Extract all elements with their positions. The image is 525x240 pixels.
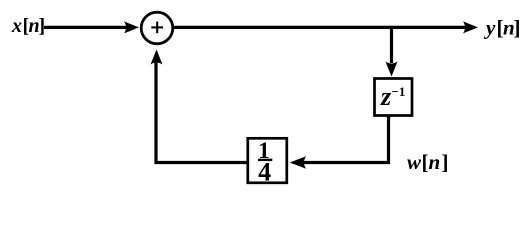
svg-text:n: n: [429, 150, 441, 174]
svg-text:−1: −1: [392, 84, 406, 99]
gain block 1/4 (fraction): [248, 138, 287, 187]
arrowhead into adder (right): [124, 21, 139, 33]
svg-text:z: z: [380, 82, 392, 111]
svg-text:w: w: [407, 150, 422, 174]
svg-text:]: ]: [442, 150, 449, 174]
wire: input line from x[n] to adder: [44, 26, 126, 29]
arrowhead into 1/4 box (left): [290, 156, 306, 168]
label x[n]: [11, 15, 45, 37]
arrowhead to y[n] (right): [463, 21, 478, 33]
label y[n]: [483, 16, 521, 40]
arrowhead into adder bottom (up): [151, 50, 163, 65]
svg-text:[: [: [422, 150, 429, 174]
svg-text:]: ]: [514, 16, 521, 40]
wire: from delay box down then left to 1/4 box: [303, 116, 389, 163]
summing junction (adder circle with +): [141, 12, 173, 44]
wire: branch down from top line to delay box: [390, 26, 393, 63]
wire: from 1/4 box left, then up to adder: [156, 58, 247, 163]
arrowhead into delay box (down): [386, 62, 398, 77]
svg-text:x: x: [11, 15, 22, 37]
wire: top line from adder to y[n]: [174, 26, 467, 29]
label w[n]: [407, 150, 449, 174]
svg-text:4: 4: [258, 158, 271, 187]
delay block z^-1: [375, 79, 413, 116]
